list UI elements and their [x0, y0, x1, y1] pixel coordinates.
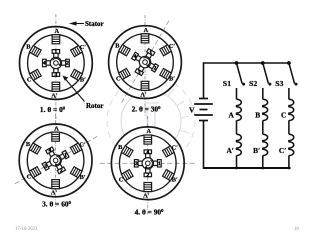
wire battery bottom lead: [203, 121, 205, 169]
motor 3 vertical axis line: [55, 113, 57, 207]
wire branch 2 lower: [262, 155, 264, 168]
motor 2 stator body fill: [109, 26, 182, 99]
svg-text:S2: S2: [249, 79, 257, 88]
motor 1 stator inner circle: [28, 35, 85, 92]
motor 3 stator inner circle: [27, 132, 84, 189]
svg-text:A′: A′: [51, 190, 58, 197]
motor 4 stator pole C: [121, 170, 133, 181]
wire branch 3 middle: [288, 120, 290, 134]
inductor C: [289, 99, 294, 120]
svg-text:2: 2: [66, 61, 69, 67]
svg-text:V: V: [189, 106, 195, 115]
svg-text:B′: B′: [80, 174, 86, 181]
svg-text:C: C: [27, 76, 32, 83]
wire bottom bus: [204, 167, 291, 169]
motor 1 group: [20, 14, 93, 126]
motor 3 stator body fill: [19, 124, 92, 197]
motor 2 stator pole C: [119, 68, 131, 79]
motor 2 stator pole Bp: [160, 68, 172, 79]
motor 1 stator outer circle: [20, 27, 93, 100]
motor 2 stator outer circle: [109, 26, 182, 99]
motor 3 stator pole Bp: [70, 167, 82, 178]
motor 4 stator outer circle: [111, 127, 184, 200]
junction node branch 2 bottom: [261, 167, 264, 170]
svg-text:4: 4: [146, 150, 149, 156]
inductor C&#8242;: [289, 134, 294, 155]
motor 2 vertical axis line: [144, 15, 146, 117]
motor 4 stator pole Cp: [163, 146, 175, 157]
svg-text:Rotor: Rotor: [86, 102, 104, 110]
motor 4 stator body fill: [111, 127, 184, 200]
inductor A&#8242;: [236, 134, 241, 155]
motor 1 rotor: [43, 50, 70, 77]
motor 4 stator pole B: [121, 146, 133, 157]
svg-text:17-10-2023: 17-10-2023: [15, 227, 38, 232]
inductor B&#8242;: [263, 134, 268, 155]
svg-text:A′: A′: [140, 91, 147, 98]
svg-text:1: 1: [55, 49, 58, 55]
svg-text:C′: C′: [79, 141, 86, 148]
svg-text:3. θ = 600: 3. θ = 600: [42, 200, 72, 209]
svg-text:2: 2: [154, 66, 157, 72]
motor 3 stator pole A: [52, 132, 60, 141]
motor 2 stator pole Cp: [160, 45, 172, 56]
motor 3 stator outer circle: [19, 124, 92, 197]
switch S3 blade: [289, 63, 295, 84]
svg-text:A: A: [144, 27, 149, 34]
svg-text:4. θ = 900: 4. θ = 900: [135, 208, 165, 217]
svg-text:A: A: [55, 28, 60, 35]
motor 4 stator pole Ap: [144, 183, 152, 192]
svg-text:A: A: [229, 111, 235, 120]
svg-text:A′: A′: [143, 193, 150, 200]
svg-text:C′: C′: [169, 43, 176, 50]
svg-text:B: B: [255, 111, 260, 120]
motor 3 stator pole C: [29, 167, 41, 178]
svg-text:4: 4: [48, 148, 51, 154]
wire branch 2 upper: [262, 88, 264, 99]
motor 4 group: [100, 116, 196, 215]
wire branch 1 upper: [236, 88, 238, 99]
svg-text:1: 1: [64, 152, 67, 158]
svg-text:C: C: [116, 75, 121, 82]
motor 3 stator pole Ap: [52, 180, 60, 189]
svg-text:3: 3: [55, 72, 58, 78]
junction node branch 1 bottom: [235, 167, 238, 170]
wire battery top lead: [203, 62, 205, 98]
svg-text:B′: B′: [169, 76, 175, 83]
motor 1 stator pole A: [52, 35, 60, 44]
motor 1 vertical axis line: [55, 14, 57, 126]
motor 2 rotated 30deg axis line: [121, 21, 169, 104]
motor 4 stator pole Bp: [163, 170, 175, 181]
svg-text:A: A: [146, 128, 151, 135]
inductor B: [263, 99, 268, 120]
svg-text:18: 18: [294, 227, 299, 232]
svg-text:S3: S3: [275, 79, 283, 88]
motor 2 stator pole B: [119, 45, 131, 56]
svg-text:A′: A′: [226, 146, 233, 155]
motor 2 stator pole Ap: [141, 81, 149, 90]
svg-text:S1: S1: [223, 79, 231, 88]
svg-text:A: A: [54, 125, 59, 132]
motor 1 stator pole B: [29, 46, 41, 57]
wire top bus: [204, 62, 291, 64]
motor 3 stator pole B: [29, 143, 41, 154]
inductor A: [236, 99, 241, 120]
svg-text:C: C: [27, 174, 32, 181]
motor 4 horizontal axis line: [100, 162, 196, 164]
wire branch 2 middle: [262, 120, 264, 134]
svg-text:B′: B′: [172, 177, 178, 184]
motor 2 stator pole A: [141, 34, 149, 43]
motor 4 vertical axis line: [147, 116, 149, 215]
junction node S2 on top bus: [261, 61, 265, 65]
motor 1 stator pole Bp: [71, 69, 83, 80]
svg-text:2: 2: [60, 168, 63, 174]
watermark logo: [107, 77, 195, 165]
svg-text:1. θ = 00: 1. θ = 00: [40, 105, 66, 114]
motor 2 stator inner circle: [117, 34, 174, 91]
svg-text:C′: C′: [279, 146, 286, 155]
svg-text:3: 3: [138, 70, 141, 76]
motor 3 stator pole Cp: [70, 143, 82, 154]
motor 2 rotor: [127, 44, 164, 81]
svg-text:4: 4: [134, 54, 137, 60]
motor 3 group: [14, 113, 97, 207]
wire branch 1 lower: [236, 155, 238, 168]
motor 1 stator body fill: [20, 27, 93, 100]
battery V: [194, 99, 213, 121]
motor 4 stator inner circle: [120, 135, 177, 192]
svg-text:1: 1: [149, 50, 152, 56]
switch S2 blade: [263, 63, 269, 84]
svg-text:Stator: Stator: [85, 20, 104, 28]
svg-text:4: 4: [43, 61, 46, 67]
svg-text:3: 3: [135, 161, 138, 167]
svg-text:2: 2: [146, 173, 149, 179]
motor 3 rotor: [37, 142, 74, 179]
motor 1 stator pole C: [29, 69, 41, 80]
motor 4 stator pole A: [144, 135, 152, 144]
svg-text:3: 3: [44, 164, 47, 170]
svg-text:C′: C′: [80, 44, 87, 51]
motor 2 group: [109, 15, 182, 117]
label Stator with arrow: [69, 20, 104, 28]
motor 1 stator pole Cp: [71, 46, 83, 57]
svg-text:A′: A′: [51, 92, 58, 99]
wire branch 3 lower: [288, 155, 290, 168]
svg-text:C: C: [281, 111, 286, 120]
svg-text:B′: B′: [80, 76, 86, 83]
svg-text:1: 1: [158, 161, 161, 167]
junction node S3 on top bus: [287, 61, 291, 65]
svg-text:2. θ = 300: 2. θ = 300: [132, 105, 162, 114]
motor 1 stator pole Ap: [52, 82, 60, 91]
switch S1 blade: [237, 63, 243, 84]
motor 4 rotor: [134, 150, 161, 177]
wire branch 1 middle: [236, 120, 238, 134]
junction node branch 3 bottom: [288, 167, 291, 170]
motor 3 rotated 60deg axis line: [14, 136, 97, 184]
wire branch 3 upper: [288, 88, 290, 99]
svg-text:B′: B′: [253, 146, 260, 155]
svg-text:C: C: [119, 177, 124, 184]
junction node S1 on top bus: [235, 61, 239, 65]
label Rotor with arrow: [63, 76, 104, 111]
svg-text:C′: C′: [172, 144, 179, 151]
